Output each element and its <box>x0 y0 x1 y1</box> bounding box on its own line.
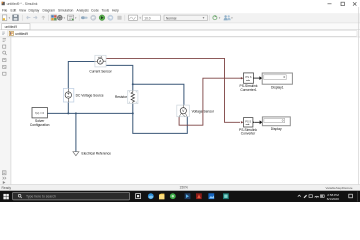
svg-text:DC Voltage Source: DC Voltage Source <box>76 93 104 97</box>
svg-text:Code: Code <box>91 8 99 12</box>
normal dropdown <box>164 15 207 20</box>
svg-text:Analysis: Analysis <box>77 8 90 12</box>
new <box>2 15 6 21</box>
svg-text:PS S: PS S <box>246 75 252 79</box>
wire W6 DC source bottom drop <box>67 98 69 113</box>
svg-text:File: File <box>2 8 7 12</box>
signal wire converter1 to display1 <box>255 76 262 80</box>
svg-text:untitled9 * - Simulink: untitled9 * - Simulink <box>7 2 38 6</box>
svg-text:untitled9: untitled9 <box>5 25 18 29</box>
final time icon <box>129 15 138 20</box>
tab bar <box>0 23 360 29</box>
PS-Simulink converter U2 <box>239 118 257 136</box>
wire W1 DC source top to current sensor + <box>68 62 95 92</box>
svg-text:f(x) = 0: f(x) = 0 <box>35 111 44 115</box>
svg-text:10.0: 10.0 <box>144 16 150 20</box>
resistor R1 <box>115 91 138 104</box>
breadcrumb bar <box>0 30 360 37</box>
back/fwd/up greyed <box>27 16 31 19</box>
hamburger <box>68 15 74 20</box>
svg-text:untitled9: untitled9 <box>15 32 28 36</box>
display block Display1 <box>262 73 292 89</box>
sim time field <box>143 15 161 20</box>
wire W2 current sensor - to resistor top <box>106 65 133 90</box>
svg-text:Help: Help <box>112 8 119 12</box>
toolbar <box>0 13 360 23</box>
current sensor A1 <box>89 55 112 73</box>
wire W5 bottom rail from solver configuration <box>47 112 132 114</box>
app icons <box>148 193 154 199</box>
step back greyed <box>91 15 96 20</box>
left palette <box>0 37 11 184</box>
svg-text:Ready: Ready <box>2 186 12 190</box>
wire W7 ground drop <box>75 113 77 151</box>
display block Display <box>262 117 290 131</box>
gear <box>58 16 62 20</box>
svg-text:150%: 150% <box>180 186 189 190</box>
connect icon <box>81 16 85 19</box>
signal wire converter to display <box>254 120 262 124</box>
wire M1 current sensor PS output to converter (maroon) <box>106 58 244 123</box>
wire M2 voltage sensor PS output to converter1 (maroon) <box>179 77 243 125</box>
step fwd greyed <box>108 15 113 20</box>
DC voltage source V1 <box>63 88 103 102</box>
node junction resistor-top <box>132 83 134 85</box>
solver configuration block <box>30 108 50 127</box>
wire W8 rail to voltage sensor bottom <box>133 113 188 133</box>
svg-text:Resistor: Resistor <box>115 95 128 99</box>
svg-text:View: View <box>19 8 27 12</box>
stop greyed <box>117 16 121 20</box>
svg-text:Converter: Converter <box>241 132 256 136</box>
svg-text:Type here to search: Type here to search <box>26 195 56 199</box>
ground electrical reference <box>73 152 111 156</box>
voltage sensor V2 <box>177 105 215 117</box>
svg-text:Diagram: Diagram <box>43 8 56 12</box>
svg-text:Voltage Sensor: Voltage Sensor <box>192 109 215 113</box>
svg-text:Edit: Edit <box>11 8 17 12</box>
tray <box>298 195 301 197</box>
task view <box>136 194 141 199</box>
update diagram <box>213 16 217 20</box>
library browser <box>51 15 57 21</box>
canvas <box>11 37 358 184</box>
PS-Simulink converter U1 <box>240 73 258 92</box>
svg-text:Display: Display <box>29 8 40 12</box>
svg-text:Display1: Display1 <box>271 85 284 89</box>
wire W3 branch to voltage sensor top <box>133 84 184 105</box>
svg-text:Normal: Normal <box>166 16 177 20</box>
svg-text:Current Sensor: Current Sensor <box>89 70 112 74</box>
run <box>99 15 105 21</box>
wire W4 resistor bottom to rail <box>132 103 134 113</box>
svg-text:VariableStepDiscrete: VariableStepDiscrete <box>326 186 353 190</box>
svg-text:Simulation: Simulation <box>58 8 74 12</box>
svg-text:PS S: PS S <box>245 119 251 123</box>
people icon <box>224 15 226 17</box>
menu bar <box>2 8 119 12</box>
node junction DC-source-rail <box>67 112 69 114</box>
svg-text:Configuration: Configuration <box>30 123 50 127</box>
svg-text:Tools: Tools <box>102 8 110 12</box>
node junction ground-rail <box>75 112 77 114</box>
node junction resistor-rail <box>132 112 134 114</box>
svg-text:Converter1: Converter1 <box>240 88 256 92</box>
svg-text:6/1/2020: 6/1/2020 <box>327 197 339 201</box>
svg-text:Electrical Reference: Electrical Reference <box>82 152 112 156</box>
svg-text:Display: Display <box>271 127 282 131</box>
save <box>13 15 19 21</box>
title bar <box>0 0 360 8</box>
